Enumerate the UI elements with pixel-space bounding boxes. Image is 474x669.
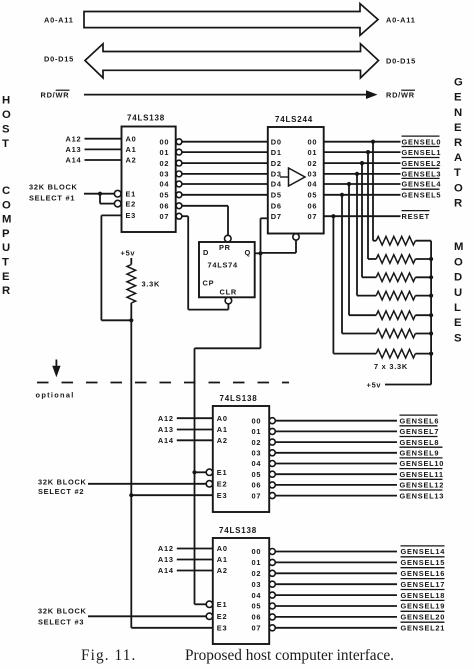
svg-text:D0: D0 [271,137,282,146]
wire U1 E3 left [101,214,121,216]
resistor R6 3.3K [376,311,415,320]
wire R1 bottom [130,303,132,320]
svg-text:05: 05 [252,470,262,479]
wire pull-up net to U3 E3 [131,494,213,496]
svg-text:03: 03 [252,580,262,589]
wire O7 down [187,216,189,309]
node U3 E1 bubble [206,469,212,475]
wire to resistor R3 [368,258,376,260]
wire U1 O5 to U2 D5 [182,194,268,196]
wire U3 O4 GENSEL10 [275,463,397,465]
decoder U3 74LS138 #2 body [213,406,269,512]
wire optional boundary arrow [55,360,57,368]
wire Q node up to D7 row [260,218,262,253]
svg-text:R: R [454,197,462,209]
svg-text:05: 05 [308,191,318,200]
decoder U4 74LS138 #3 body [213,538,269,644]
svg-text:D: D [454,272,462,284]
svg-text:GENSEL14: GENSEL14 [401,547,446,556]
wire pull-up net to U4 E3 [131,627,213,629]
svg-text:A2: A2 [217,566,228,575]
op-amp U1 74LS138 decoder #1 body [122,127,176,233]
svg-text:02: 02 [308,159,318,168]
wire +5v bus vertical [430,241,432,385]
svg-text:GENSEL3: GENSEL3 [402,170,442,179]
svg-text:74LS74: 74LS74 [208,260,239,269]
buffer U2 74LS244 body [268,127,324,234]
svg-text:E: E [454,122,462,134]
node GENSEL6 label [400,414,438,416]
svg-text:74LS138: 74LS138 [219,394,257,403]
svg-text:optional: optional [36,390,75,399]
node GENSEL0 junction [371,140,375,144]
wire U2 enable down [295,240,297,253]
wire to U3 E1 [195,471,207,473]
wire A13 to U1 [85,148,122,150]
svg-text:A0: A0 [126,134,137,143]
svg-text:GENSEL19: GENSEL19 [401,602,446,611]
svg-text:07: 07 [252,624,262,633]
svg-text:00: 00 [252,547,262,556]
svg-text:A13: A13 [158,555,174,564]
svg-text:A2: A2 [126,156,137,165]
svg-text:GENSEL8: GENSEL8 [400,438,440,447]
svg-text:A12: A12 [66,134,82,143]
svg-text:01: 01 [160,148,170,157]
svg-text:D2: D2 [271,159,282,168]
wire U2 O7 RESET line [324,215,401,217]
resistor R5 3.3K [376,291,415,300]
node GENSEL16 label [401,567,445,569]
wire RESET drop [332,216,334,353]
svg-text:GENSEL15: GENSEL15 [401,558,446,567]
svg-text:06: 06 [160,202,170,211]
svg-text:01: 01 [252,427,262,436]
svg-text:GENSEL0: GENSEL0 [402,137,442,146]
wire RD/WR line [84,94,368,96]
node E3 junction at U3 [129,493,133,497]
svg-text:N: N [454,107,462,119]
wire to resistor R8 [333,353,376,355]
node +5v bus junctions [429,257,433,261]
svg-text:E1: E1 [217,468,228,477]
wire U4 O2 GENSEL16 [275,572,397,574]
svg-text:O: O [2,109,11,121]
svg-text:O: O [454,182,463,194]
node U3 E2 bubble [206,481,212,487]
wire GENSEL1 drop to resistor [367,152,369,259]
svg-text:SELECT #2: SELECT #2 [38,487,84,496]
wire U4 O6 GENSEL20 [275,616,397,618]
svg-text:SELECT #1: SELECT #1 [29,193,75,202]
wire A14 to U1 [85,159,122,161]
svg-text:Q: Q [245,248,252,257]
svg-text:SELECT #3: SELECT #3 [38,617,84,626]
svg-text:GENSEL5: GENSEL5 [402,191,442,200]
wire O6 down to U5 PR [227,206,229,235]
wire pull-up node down to U3 E3 [130,320,132,495]
svg-text:R: R [2,285,10,297]
wire R3 to +5v bus [415,258,431,260]
svg-text:E2: E2 [217,612,228,621]
svg-text:04: 04 [308,180,318,189]
svg-text:02: 02 [252,569,262,578]
svg-text:CP: CP [203,278,215,287]
node GENSEL10 label [400,457,443,459]
wire A13 to U3 [177,429,213,431]
svg-text:R: R [454,137,462,149]
svg-text:00: 00 [252,416,262,425]
wire to U4 E1 [195,603,207,605]
svg-text:D6: D6 [271,202,282,211]
node U2 enable bubble [293,234,299,240]
svg-text:32K BLOCK: 32K BLOCK [38,478,87,487]
wire U3 O2 GENSEL8 [275,441,397,443]
wire junction down to E2 row [99,194,101,204]
wire U4 O1 GENSEL15 [275,561,397,563]
svg-text:74LS138: 74LS138 [219,526,257,535]
wire U4 O0 GENSEL14 [275,551,397,553]
wire U3 O3 GENSEL9 [275,452,397,454]
svg-text:T: T [2,257,9,269]
svg-text:A0-A11: A0-A11 [44,15,74,24]
svg-text:A1: A1 [126,145,137,154]
svg-text:A14: A14 [158,436,174,445]
svg-text:GENSEL9: GENSEL9 [400,449,440,458]
wire GENSEL5 drop to resistor [341,195,343,334]
wire U4 O3 GENSEL17 [275,583,397,585]
svg-text:GENSEL6: GENSEL6 [400,416,440,425]
svg-text:CLR: CLR [220,288,237,297]
svg-text:+5v: +5v [367,380,382,389]
svg-text:02: 02 [160,159,170,168]
svg-text:U: U [2,242,10,254]
svg-text:RESET: RESET [402,212,430,221]
resistor R7 3.3K [376,329,415,338]
wire RD/WR arrowhead [366,90,378,99]
svg-text:E2: E2 [126,199,137,208]
resistor R3 3.3K [376,255,415,264]
wire U2 O1 GENSEL1 line [324,151,401,153]
wire U1 O6 right [182,205,228,207]
node Q net junction at U3 E1 [192,470,196,474]
svg-text:A12: A12 [158,544,174,553]
svg-text:04: 04 [252,591,262,600]
node GENSEL15 label [401,556,445,558]
svg-text:D4: D4 [271,180,282,189]
flip-flop U5 74LS74 body [199,242,255,297]
svg-text:U: U [454,287,462,299]
node U3 output bubbles [269,418,275,424]
svg-text:E: E [2,271,10,283]
node GENSEL21 label [401,621,445,623]
svg-text:D7: D7 [271,212,282,221]
node U1 E1 bubble [114,190,121,197]
svg-text:07: 07 [160,212,170,221]
wire U4 O4 GENSEL18 [275,594,397,596]
svg-text:02: 02 [252,438,262,447]
wire R5 to +5v bus [415,295,431,297]
wire R7 to +5v bus [415,333,431,335]
svg-text:C: C [2,185,10,197]
wire E3 to pull-up node [101,319,131,321]
svg-text:PR: PR [219,243,231,252]
svg-text:GENSEL2: GENSEL2 [402,159,442,168]
svg-text:GENSEL18: GENSEL18 [401,591,446,600]
svg-text:05: 05 [252,602,262,611]
svg-text:A0: A0 [217,414,228,423]
wire to resistor R2 [373,240,376,242]
svg-text:D0-D15: D0-D15 [44,55,74,64]
resistor R2 3.3K [376,236,415,245]
svg-text:O: O [454,256,463,268]
wire triangle input stub [280,176,289,178]
wire to resistor R5 [357,295,376,297]
svg-text:GENSEL12: GENSEL12 [400,481,445,490]
wire down to U4 E3 [130,495,132,628]
svg-text:A0-A11: A0-A11 [386,15,416,24]
svg-text:E1: E1 [217,600,228,609]
node GENSEL2 junction [360,161,364,165]
wire U4 O5 GENSEL19 [275,605,397,607]
wire D0-D15 data bus double arrow [85,44,379,78]
svg-text:RD/WR: RD/WR [41,91,70,100]
svg-text:A1: A1 [217,425,228,434]
wire U1 O7 right [182,215,188,217]
wire R8 to +5v bus [415,353,431,355]
svg-text:E3: E3 [126,211,137,220]
node RESET label [402,210,430,212]
svg-text:D: D [203,248,209,257]
svg-text:A1: A1 [217,555,228,564]
wire +5v to resistor R1 [130,258,132,265]
svg-text:GENSEL17: GENSEL17 [401,580,446,589]
wire A14 to U4 [177,570,213,572]
svg-text:D5: D5 [271,191,282,200]
svg-text:03: 03 [252,449,262,458]
svg-text:3.3K: 3.3K [142,280,161,289]
wire U5 Q output [255,252,261,254]
svg-text:GENSEL7: GENSEL7 [400,427,440,436]
svg-text:04: 04 [160,180,170,189]
svg-text:S: S [2,124,10,136]
node U4 E1 bubble [206,601,212,607]
wire O7 to CLR stub [188,309,228,311]
wire GENSEL2 drop to resistor [361,163,363,277]
node GENSEL12 label [400,478,443,480]
wire SELECT#2 to U3 E2 [88,483,206,485]
svg-text:GENSEL11: GENSEL11 [400,470,444,479]
node GENSEL9 label [400,446,443,448]
svg-text:G: G [454,77,463,89]
svg-text:00: 00 [308,137,318,146]
svg-text:07: 07 [308,212,318,221]
svg-text:E2: E2 [217,480,228,489]
node U2 buffer triangle [289,168,306,186]
svg-text:32K BLOCK: 32K BLOCK [38,606,87,615]
node U4 output bubbles [269,549,275,555]
svg-text:06: 06 [252,481,262,490]
svg-text:01: 01 [308,148,318,157]
resistor R1 3.3K vertical [127,265,136,304]
node U1 output bubbles [176,139,182,145]
wire Q net horizontal [195,347,261,349]
svg-text:L: L [454,302,461,314]
svg-text:E: E [454,92,462,104]
svg-text:74LS138: 74LS138 [127,114,165,123]
wire U1 O3 to U2 D3 [182,173,268,175]
svg-text:A0: A0 [217,544,228,553]
wire Q node down [260,253,262,348]
wire E3 vertical down [100,215,102,320]
wire U1 O4 to U2 D4 [182,183,268,185]
node GENSEL4 junction [347,182,351,186]
wire U3 O5 GENSEL11 [275,473,397,475]
wire A12 to U1 [85,138,122,140]
wire R4 to +5v bus [415,276,431,278]
svg-text:06: 06 [308,202,318,211]
node Q junction [258,251,262,255]
wire U3 O6 GENSEL12 [275,484,397,486]
wire to resistor R6 [349,314,376,316]
wire U3 O7 GENSEL13 [275,495,397,497]
svg-text:GENSEL4: GENSEL4 [402,180,442,189]
wire GENSEL3 drop to resistor [356,174,358,296]
wire GENSEL0 drop to resistor [372,142,374,241]
svg-text:7 x 3.3K: 7 x 3.3K [374,362,408,371]
svg-text:GENSEL1: GENSEL1 [402,148,442,157]
wire A12 to U3 [177,417,213,419]
wire U2 O2 GENSEL2 line [324,162,401,164]
wire enable to Q node [261,252,297,254]
svg-text:GENSEL10: GENSEL10 [400,459,445,468]
wire R6 to +5v bus [415,314,431,316]
wire SELECT#3 to U4 E2 [88,615,206,617]
wire U2 O5 GENSEL5 line [324,194,401,196]
svg-text:+5v: +5v [121,249,136,258]
svg-text:T: T [454,167,461,179]
svg-text:S: S [454,332,462,344]
wire optional dashed divider [37,382,289,384]
wire Q net down to U4 E1 [194,348,196,604]
svg-text:M: M [454,241,463,253]
svg-text:O: O [2,199,11,211]
node GENSEL14 label [401,545,445,547]
svg-text:07: 07 [252,491,262,500]
svg-text:03: 03 [308,170,318,179]
node RESET junction [331,214,335,218]
svg-text:D0-D15: D0-D15 [386,57,416,66]
svg-text:P: P [2,228,10,240]
svg-text:A13: A13 [66,145,82,154]
node GENSEL13 label [400,489,443,491]
node GENSEL0-5 labels [402,135,440,137]
svg-text:A12: A12 [158,414,174,423]
node GENSEL8 label [400,436,438,438]
wire U1 O2 to U2 D2 [182,162,268,164]
wire U2 O4 GENSEL4 line [324,183,401,185]
node GENSEL19 label [401,599,445,601]
node GENSEL17 label [401,578,445,580]
wire U1 O1 to U2 D1 [182,151,268,153]
wire A14 to U3 [177,439,213,441]
wire R2 to +5v bus [415,240,431,242]
wire to resistor R7 [342,333,376,335]
svg-text:A2: A2 [217,436,228,445]
svg-text:E3: E3 [217,624,228,633]
svg-text:04: 04 [252,459,262,468]
svg-text:T: T [2,138,9,150]
svg-text:Proposed host computer interfa: Proposed host computer interface. [185,647,394,664]
node U5 CLR bubble [225,297,232,304]
node SELECT#1 junction [98,192,102,196]
wire up to U5 CLR bubble [227,304,229,310]
resistor R4 3.3K [376,273,415,282]
node GENSEL18 label [401,589,445,591]
svg-text:A14: A14 [66,156,82,165]
resistor R8 3.3K [376,349,415,358]
wire U2 O0 GENSEL0 line [324,141,401,143]
svg-text:GENSEL21: GENSEL21 [401,624,446,633]
wire U2 O3 GENSEL3 line [324,173,401,175]
svg-text:05: 05 [160,191,170,200]
svg-text:RD/WR: RD/WR [386,91,415,100]
wire A12 to U4 [177,548,213,550]
svg-text:Fig. 11.: Fig. 11. [81,647,136,664]
wire U3 O0 GENSEL6 [275,420,397,422]
svg-text:GENSEL16: GENSEL16 [401,569,446,578]
svg-text:GENSEL13: GENSEL13 [400,491,445,500]
wire to U1 E2 [100,203,115,205]
node GENSEL20 label [401,610,445,612]
svg-text:32K BLOCK: 32K BLOCK [29,182,78,191]
wire to resistor R4 [362,276,376,278]
wire +5v to bus [385,384,431,386]
node GENSEL3 junction [355,172,359,176]
wire A13 to U4 [177,559,213,561]
svg-text:A: A [454,152,462,164]
svg-text:E3: E3 [217,491,228,500]
svg-text:A14: A14 [158,566,174,575]
svg-text:E1: E1 [126,189,137,198]
wire U3 O1 GENSEL7 [275,430,397,432]
wire A0-A11 address bus arrow [84,4,378,36]
wire SELECT#1 to U1 E1 [84,193,115,195]
wire U1 O0 to U2 D0 [182,141,268,143]
svg-text:M: M [2,214,11,226]
svg-text:D1: D1 [271,148,282,157]
node U5 PR bubble [225,235,232,242]
svg-text:E: E [454,317,462,329]
node GENSEL5 junction [340,193,344,197]
svg-text:06: 06 [252,613,262,622]
svg-text:00: 00 [160,137,170,146]
node GENSEL1 junction [366,150,370,154]
svg-text:GENSEL20: GENSEL20 [401,613,446,622]
wire GENSEL4 drop to resistor [348,184,350,315]
wire to U2 D7 [261,217,268,219]
svg-text:H: H [2,95,10,107]
svg-text:03: 03 [160,170,170,179]
node U1 E2 bubble [114,200,121,207]
svg-text:A13: A13 [158,425,174,434]
node U4 E2 bubble [206,613,212,619]
node GENSEL7 label [400,425,438,427]
node pull-up junction [129,318,133,322]
svg-text:01: 01 [252,558,262,567]
node GENSEL11 label [400,468,443,470]
svg-text:74LS244: 74LS244 [275,115,313,124]
